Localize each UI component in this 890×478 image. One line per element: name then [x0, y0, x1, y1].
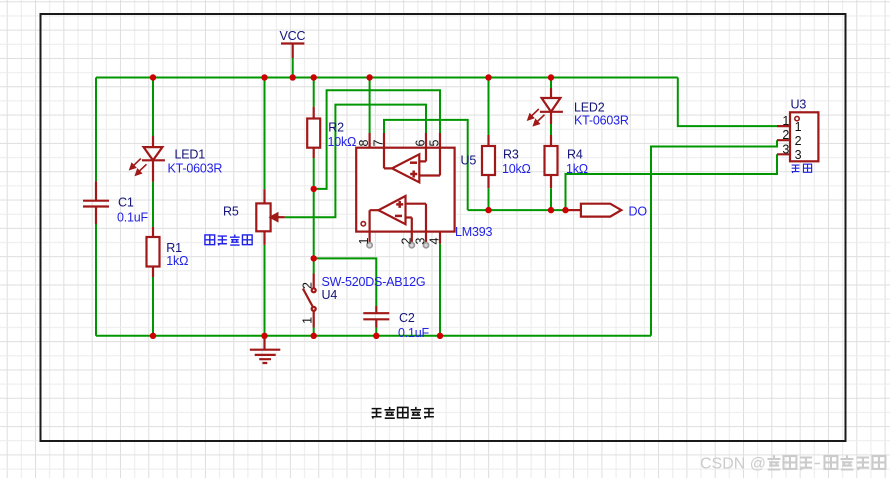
node switch top [311, 255, 317, 261]
LED2 [550, 88, 552, 98]
svg-text:SW-520DS-AB12G: SW-520DS-AB12G [322, 275, 426, 289]
wire R5 wiper to U5 pin6 [285, 105, 426, 218]
svg-text:10kΩ: 10kΩ [502, 162, 531, 176]
svg-text:VCC: VCC [280, 29, 306, 43]
svg-text:KT-0603R: KT-0603R [168, 162, 223, 176]
tilt switch U4 [313, 274, 315, 289]
svg-text:0.1uF: 0.1uF [117, 211, 149, 225]
node VCC rail junctions [150, 74, 156, 80]
svg-text:R4: R4 [567, 148, 583, 162]
svg-text:R3: R3 [503, 148, 519, 162]
svg-text:1: 1 [301, 317, 315, 324]
svg-text:LED1: LED1 [175, 147, 206, 161]
svg-text:0.1uF: 0.1uF [398, 326, 430, 340]
svg-text:1kΩ: 1kΩ [566, 162, 588, 176]
node R2 bottom [311, 186, 317, 192]
svg-text:KT-0603R: KT-0603R [574, 114, 629, 128]
resistor R5 (potentiometer) [263, 189, 265, 245]
wire LED1/R1 column [152, 78, 154, 137]
U5 bottom pin leads [370, 232, 440, 244]
resistor R4 [550, 135, 552, 188]
wire U5 pin7 to DO rail [384, 120, 468, 210]
wire U5 pin8 to VCC rail [369, 78, 371, 134]
wire VCC rail to U3 pin1 [678, 78, 777, 127]
svg-text:5: 5 [428, 140, 442, 147]
svg-text:1: 1 [795, 120, 802, 134]
ground symbol [250, 336, 280, 363]
node DO rail junctions [485, 207, 491, 213]
svg-text:R2: R2 [328, 121, 344, 135]
svg-text:U3: U3 [791, 98, 807, 112]
svg-text:3: 3 [414, 238, 428, 245]
connector U3 body [790, 112, 818, 161]
wire DO rail [468, 209, 566, 211]
U5 pin1 marker [361, 222, 365, 226]
svg-text:LED2: LED2 [574, 100, 605, 114]
svg-text:LM393: LM393 [455, 225, 492, 239]
resistor R3 [487, 135, 489, 188]
U3 pin stubs [777, 126, 790, 154]
svg-text:7: 7 [372, 140, 386, 147]
svg-text:2: 2 [782, 128, 789, 142]
svg-text:1: 1 [782, 114, 789, 128]
svg-text:CSDN @: CSDN @ [700, 456, 766, 473]
VCC power symbol [281, 44, 304, 59]
U5 open pin circles [367, 243, 429, 248]
svg-text:1: 1 [357, 238, 371, 245]
U3 pin1 marker [795, 116, 799, 120]
svg-text:3: 3 [782, 142, 789, 156]
svg-text:10kΩ: 10kΩ [328, 135, 357, 149]
wire U3 pin3 to DO node [566, 154, 778, 210]
wire R2/U4 column [313, 78, 315, 107]
U5 top pin leads [370, 133, 440, 148]
wire switch node to C2 [314, 258, 377, 306]
wire C2 bottom [375, 328, 377, 336]
wire LED2/R4 column [550, 78, 552, 89]
DO net flag [566, 209, 581, 211]
svg-text:DO: DO [629, 204, 648, 218]
wire VCC top rail [96, 77, 678, 79]
svg-text:6: 6 [414, 140, 428, 147]
svg-text:C1: C1 [118, 196, 134, 210]
resistor R1 [152, 227, 154, 277]
wire U3 pin2 to ground rail [651, 140, 777, 336]
svg-text:2: 2 [399, 238, 413, 245]
svg-text:8: 8 [357, 140, 371, 147]
capacitor C1 [83, 181, 109, 224]
capacitor C2 [363, 306, 389, 328]
op-amp U5 body [356, 148, 454, 232]
sheet title qingxie-chuanganqi (tilt sensor) [372, 407, 434, 419]
U5 op-amp plus/minus signs [395, 163, 417, 216]
LED1 arrows [133, 159, 141, 167]
svg-text:U5: U5 [461, 154, 477, 168]
node ground rail junctions [150, 333, 156, 339]
wire bottom ground rail [96, 335, 651, 337]
svg-text:1kΩ: 1kΩ [166, 254, 188, 268]
svg-text:R5: R5 [223, 205, 239, 219]
wire R5 column [264, 78, 266, 190]
wire U5 pin4 to ground rail [439, 244, 441, 336]
value U3 text jiekou (interface) [792, 164, 812, 173]
op-amp A triangle (top) [392, 154, 419, 182]
resistor R2 [313, 107, 315, 158]
LED2 arrows [531, 109, 539, 117]
svg-text:4: 4 [428, 238, 442, 245]
svg-text:3: 3 [795, 148, 802, 162]
wire left rail (C1 column) [95, 78, 97, 182]
op-amp B triangle (bottom) [378, 196, 405, 224]
value R5 text kediao-dianzu (adjustable resistor) [205, 234, 252, 245]
svg-text:R1: R1 [166, 241, 182, 255]
svg-text:C2: C2 [399, 311, 415, 325]
svg-text:2: 2 [301, 282, 315, 289]
wire VCC stub [292, 58, 294, 78]
wire R2 bottom to U5 pin5 [314, 90, 440, 189]
svg-text:U4: U4 [322, 288, 338, 302]
svg-text:2: 2 [795, 134, 802, 148]
LED1 [152, 136, 154, 147]
wire R3 column [488, 78, 490, 136]
